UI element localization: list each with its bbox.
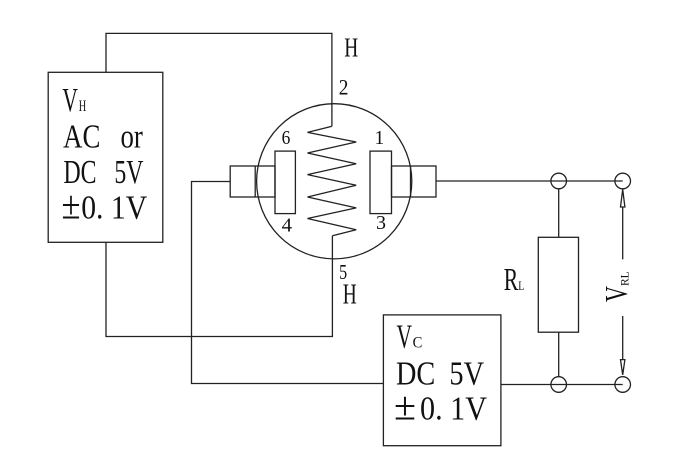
svg-text:2: 2: [339, 74, 349, 99]
svg-text:V: V: [397, 319, 413, 356]
svg-text:V: V: [62, 82, 78, 119]
svg-text:±: ±: [394, 384, 416, 429]
svg-text:3: 3: [376, 213, 386, 234]
svg-text:1: 1: [375, 128, 385, 149]
svg-text:R: R: [504, 261, 519, 297]
svg-text:L: L: [518, 278, 524, 293]
svg-text:C: C: [413, 335, 423, 352]
svg-text:0. 1V: 0. 1V: [420, 391, 487, 428]
svg-text:H: H: [343, 280, 357, 311]
svg-text:6: 6: [282, 128, 291, 149]
svg-text:4: 4: [282, 216, 293, 237]
svg-text:AC or: AC or: [63, 118, 143, 155]
svg-text:RL: RL: [620, 271, 632, 286]
svg-text:0. 1V: 0. 1V: [81, 190, 147, 227]
svg-text:±: ±: [62, 183, 81, 228]
svg-text:H: H: [344, 32, 358, 63]
svg-text:H: H: [79, 98, 87, 115]
svg-text:V: V: [598, 286, 634, 302]
